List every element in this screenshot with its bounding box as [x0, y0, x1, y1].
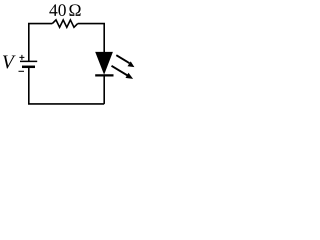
LED D1: triangle (anode top, apex down)	[96, 52, 113, 74]
wire: left vertical lower (battery minus down to bottom-left corner) + bottom wire	[29, 68, 104, 104]
unit symbol Ohm	[69, 4, 80, 16]
battery label V	[3, 56, 16, 69]
LED emission arrow 1 (upper): head	[128, 61, 135, 67]
battery V: top plate (positive, long)	[20, 60, 37, 62]
LED D1: cathode bar	[95, 74, 113, 76]
LED emission arrow 1 (upper): shaft	[116, 55, 129, 63]
battery minus sign	[19, 70, 25, 72]
LED emission arrow 2 (lower): head	[126, 73, 134, 79]
value label 40 Ohm	[49, 4, 57, 16]
battery plus sign	[19, 55, 24, 60]
battery V: bottom plate (negative, short thick)	[22, 66, 35, 69]
wire: top-left corner (left vertical upper + top wire left segment)	[29, 24, 53, 61]
resistor 40 ohm zigzag	[52, 20, 77, 27]
LED emission arrow 2 (lower): shaft	[112, 66, 128, 76]
wire: right vertical lower (LED cathode down to bottom-right corner)	[103, 76, 105, 104]
wire: top wire right segment + right vertical down to LED anode	[78, 24, 105, 53]
